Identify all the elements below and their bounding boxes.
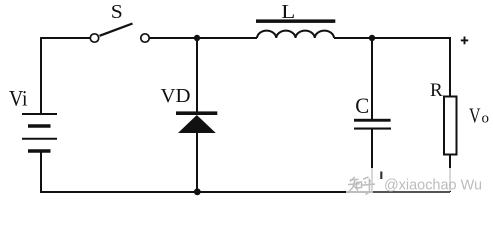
- wire diode anode to bottom rail: [196, 133, 198, 192]
- watermark zhihu character 乎: [362, 177, 376, 195]
- node (diode to bottom rail junction): [194, 188, 201, 195]
- watermark backdrop fade over rail right part: [373, 191, 450, 195]
- diode VD cathode bar: [176, 111, 217, 115]
- svg-text:@xiaochao Wu: @xiaochao Wu: [384, 178, 482, 194]
- wire switch to node A: [149, 37, 197, 39]
- switch S: [90, 24, 149, 43]
- wire node A to inductor: [197, 37, 257, 39]
- wire left rail lower: [40, 153, 42, 193]
- inductor L winding: [257, 31, 334, 38]
- watermark zhihu character 知: [348, 177, 362, 193]
- svg-text:o: o: [482, 111, 490, 127]
- capacitor C bottom plate: [354, 128, 391, 130]
- svg-text:Vi: Vi: [9, 85, 28, 110]
- svg-text:S: S: [111, 1, 123, 23]
- voltage source Vi (battery): [22, 114, 57, 151]
- watermark backdrop fade: [344, 168, 493, 191]
- svg-text:R: R: [430, 80, 443, 101]
- wire diode cathode side (node A down): [196, 38, 198, 112]
- svg-text:L: L: [281, 1, 295, 23]
- watermark backdrop fade over rail left part: [346, 191, 373, 195]
- svg-text:VD: VD: [161, 85, 191, 107]
- node B junction dot: [369, 35, 375, 41]
- wire resistor bottom: [449, 155, 451, 193]
- resistor R body: [444, 97, 457, 155]
- wire inductor to node B: [334, 37, 372, 39]
- wire node B to top-right corner: [372, 38, 450, 97]
- wire capacitor top: [371, 38, 373, 119]
- watermark stray dark tick: [380, 172, 382, 180]
- wire left rail upper: [40, 37, 42, 113]
- diode VD triangle: [178, 115, 216, 133]
- svg-text:V: V: [469, 104, 481, 128]
- wire capacitor bottom: [371, 130, 373, 193]
- label + output polarity: [461, 37, 468, 45]
- capacitor C top plate: [354, 119, 391, 122]
- svg-text:C: C: [355, 93, 369, 118]
- inductor L core bar: [256, 19, 335, 23]
- wire bottom rail: [40, 191, 450, 193]
- node A junction dot: [194, 35, 200, 41]
- wire top-left horizontal: [41, 37, 90, 39]
